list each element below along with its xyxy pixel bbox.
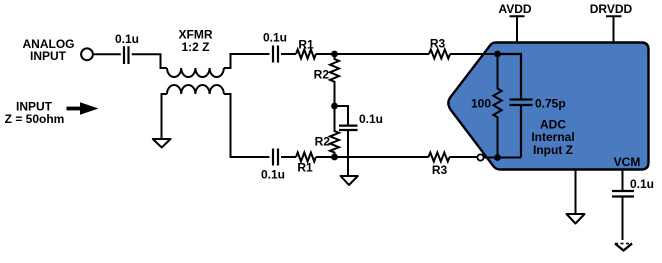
- svg-text:0.1u: 0.1u: [630, 177, 654, 191]
- wire: [224, 94, 270, 157]
- open node (bottom ADC input): [477, 154, 483, 160]
- svg-text:AVDD: AVDD: [498, 2, 531, 16]
- wire: [281, 53, 296, 55]
- ADC block: [448, 43, 648, 170]
- svg-text:100: 100: [471, 97, 491, 111]
- capacitor C 0.1u (VCM): [612, 191, 634, 197]
- svg-text:1:2 Z: 1:2 Z: [181, 40, 209, 54]
- wire: [450, 53, 494, 55]
- svg-text:Z = 50ohm: Z = 50ohm: [5, 112, 65, 126]
- svg-text:0.1u: 0.1u: [263, 31, 287, 45]
- transformer XFMR 1:2 Z primary winding: [167, 68, 224, 77]
- svg-text:R1: R1: [297, 161, 313, 175]
- wire: [498, 157, 522, 159]
- wire: [132, 54, 167, 68]
- input impedance arrow: [67, 107, 83, 111]
- internal resistor 100: [493, 54, 501, 158]
- node (internal bottom): [494, 154, 501, 161]
- svg-text:Internal: Internal: [531, 130, 574, 144]
- svg-text:R2: R2: [314, 68, 330, 82]
- svg-text:Input Z: Input Z: [533, 143, 573, 157]
- svg-text:INPUT: INPUT: [30, 49, 67, 63]
- wire: [622, 198, 624, 241]
- svg-text:0.1u: 0.1u: [115, 32, 139, 46]
- resistor R2 (bottom): [330, 106, 339, 157]
- svg-text:VCM: VCM: [614, 155, 641, 169]
- capacitor C 0.1u (top path): [273, 46, 278, 63]
- capacitor C 0.1u (shunt): [339, 126, 358, 130]
- wire: [162, 94, 168, 139]
- resistor R3 (top): [429, 50, 450, 59]
- node (bottom): [331, 154, 338, 161]
- wire: [347, 131, 349, 176]
- svg-text:0.75p: 0.75p: [535, 97, 566, 111]
- resistor R3 (bottom): [429, 153, 450, 162]
- wire: [224, 54, 270, 68]
- node (internal top): [494, 51, 501, 58]
- node (middle junction): [331, 103, 338, 110]
- wire: [316, 53, 429, 55]
- wire: [335, 106, 349, 125]
- transformer secondary winding: [167, 85, 224, 94]
- ground (middle): [341, 176, 358, 185]
- wire: [281, 156, 296, 158]
- resistor R1 (bottom): [296, 153, 316, 162]
- ground (transformer): [153, 139, 171, 148]
- svg-text:R3: R3: [430, 37, 446, 51]
- wire: [316, 156, 429, 158]
- svg-text:R2: R2: [315, 135, 331, 149]
- arrow ground (VCM): [615, 244, 632, 251]
- svg-text:R3: R3: [432, 163, 448, 177]
- wire: [575, 171, 577, 214]
- svg-text:0.1u: 0.1u: [261, 168, 285, 182]
- wire: [484, 157, 498, 159]
- svg-text:R1: R1: [298, 38, 314, 52]
- resistor R1 (top): [296, 50, 316, 59]
- wire: [622, 171, 624, 191]
- svg-text:DRVDD: DRVDD: [590, 2, 633, 16]
- ground (below ADC): [567, 214, 585, 224]
- node (top): [331, 51, 338, 58]
- input terminal: [81, 48, 93, 60]
- wire: [94, 53, 121, 55]
- resistor R2 (top): [330, 54, 339, 106]
- internal capacitor 0.75p: [498, 54, 533, 158]
- wire: [450, 156, 478, 158]
- svg-text:0.1u: 0.1u: [359, 112, 383, 126]
- capacitor C 0.1u (input coupling): [124, 46, 129, 64]
- capacitor C 0.1u (bottom path): [273, 149, 278, 166]
